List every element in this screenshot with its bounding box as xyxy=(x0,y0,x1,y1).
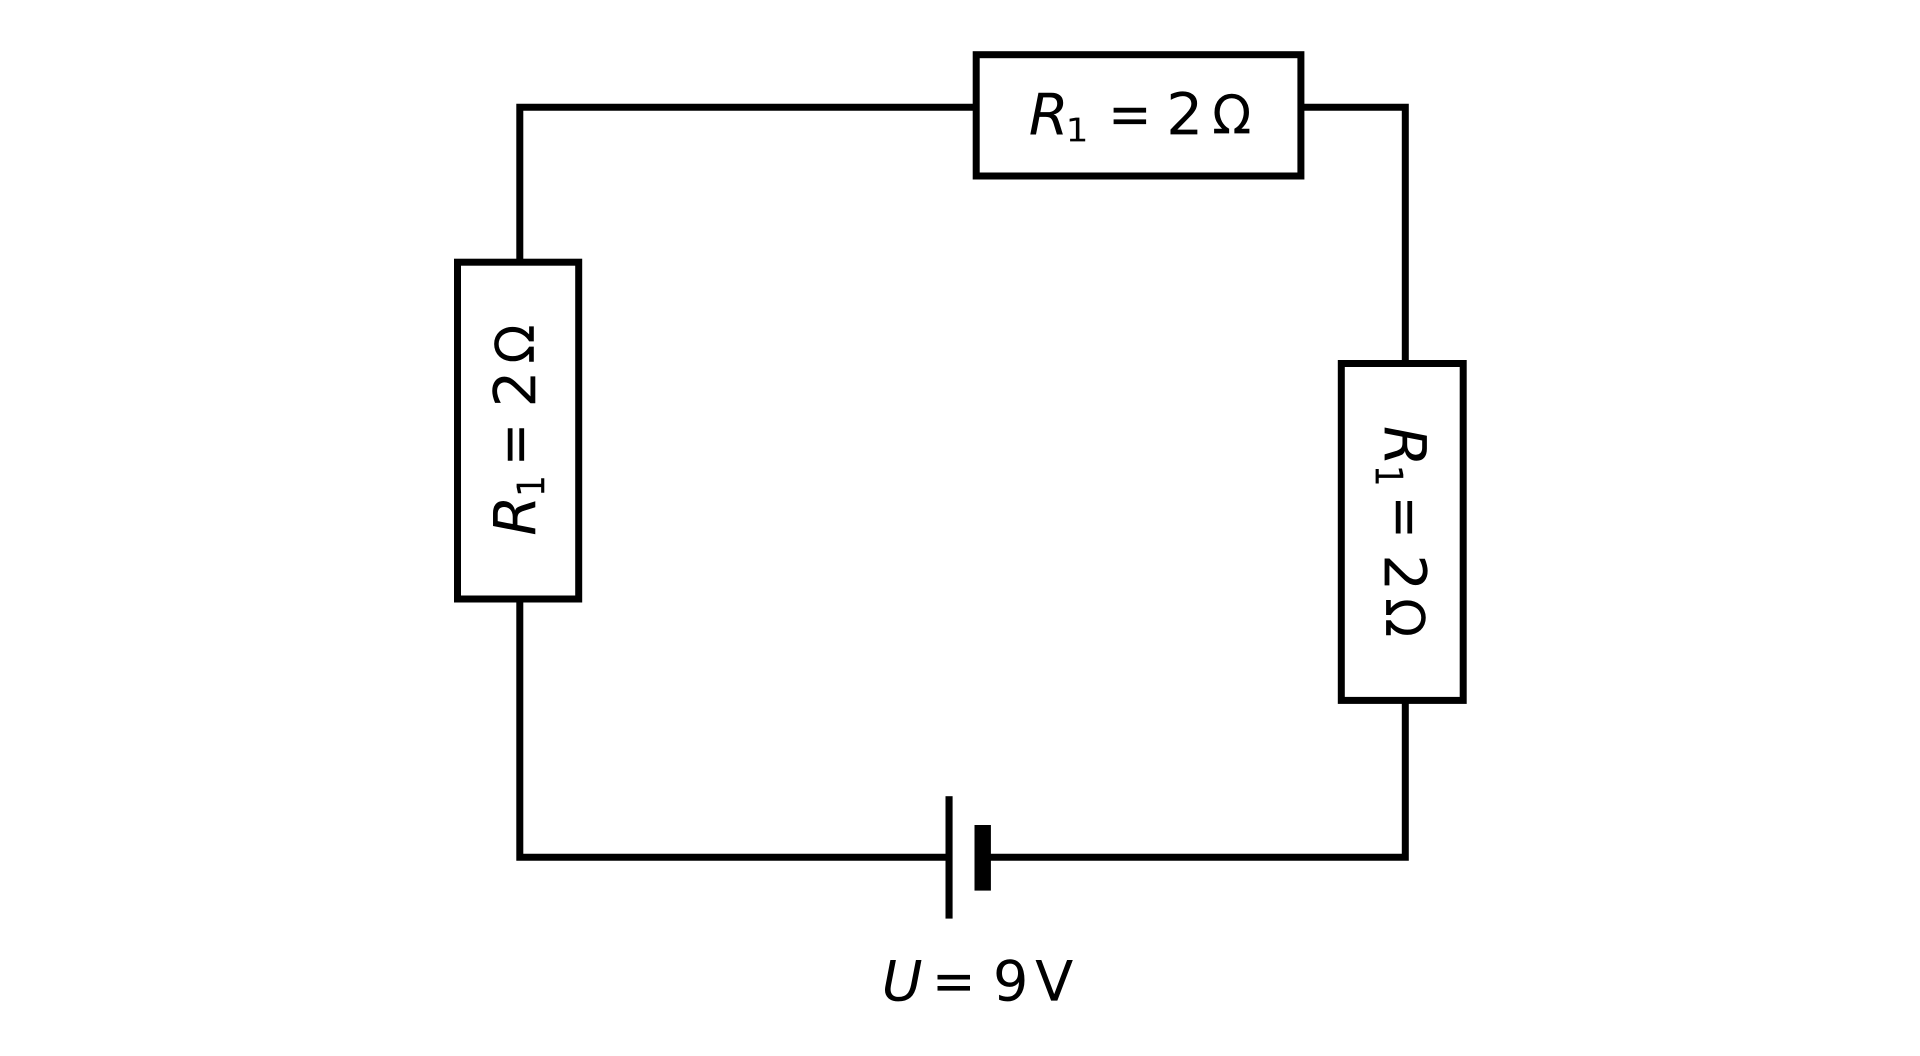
label R1 = 2 Ohm left xyxy=(492,326,544,534)
wire top-right xyxy=(1301,107,1405,364)
label R1 = 2 Ohm right xyxy=(1376,427,1428,635)
battery U thick electrode xyxy=(975,825,991,891)
wire bottom-right xyxy=(983,700,1406,857)
wire bottom-left xyxy=(520,599,949,857)
label R1 = 2 Ohm top xyxy=(1030,91,1249,141)
resistor R1 left xyxy=(458,262,579,599)
resistor R1 right xyxy=(1341,364,1463,701)
wire top-left xyxy=(520,107,975,262)
battery U long electrode xyxy=(946,796,953,918)
resistor R1 top xyxy=(976,55,1301,176)
label U = 9 V xyxy=(885,959,1073,1001)
